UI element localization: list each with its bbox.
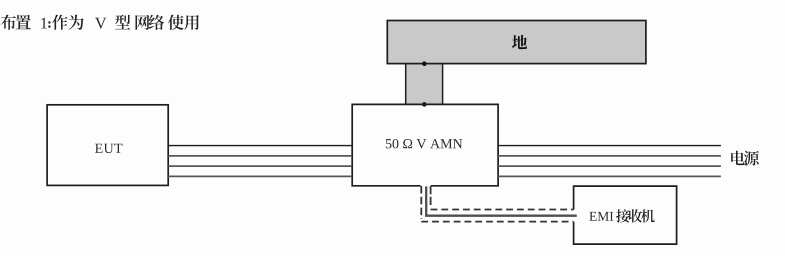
wire: coax screen bottom (dashed) horizontal — [421, 221, 573, 223]
label 地 (ground) — [512, 35, 527, 49]
EUT box — [47, 105, 168, 186]
wire: mains conductor 1 right — [498, 145, 721, 147]
wire: mains conductor 3 left — [168, 165, 352, 167]
wire: ground strap (gray) — [406, 64, 443, 105]
ground plane bar — [387, 21, 646, 64]
wire: coax centre conductor (solid) — [426, 186, 577, 215]
wire: coax screen bottom (dashed) vertical — [420, 186, 422, 219]
EMI receiver box — [574, 186, 677, 244]
wire: coax screen top (dashed) horizontal — [431, 209, 574, 211]
title text: 布置 1:作为 V 型网络使用 — [1, 15, 199, 30]
wire: mains conductor 2 left — [168, 155, 352, 157]
wire: coax screen top (dashed) vertical — [430, 186, 432, 207]
node: junction dot at AMN case — [422, 102, 427, 107]
node: junction dot at ground plane — [422, 61, 427, 66]
wire: mains conductor 3 right — [498, 165, 721, 167]
wire: mains conductor 1 left — [168, 145, 352, 147]
label 电源 (mains supply) — [731, 151, 759, 166]
wire: mains conductor 2 right — [498, 155, 721, 157]
wire: mains conductor 4 right — [498, 175, 721, 177]
AMN box: 50 Ω V AMN — [352, 104, 498, 185]
wire: mains conductor 4 left — [168, 175, 352, 177]
